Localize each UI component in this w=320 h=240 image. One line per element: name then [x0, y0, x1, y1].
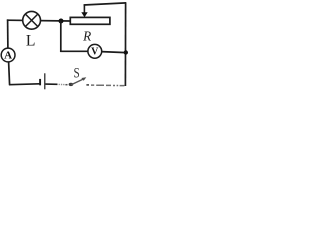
wire left rail lower	[9, 62, 10, 86]
wire left rail upper	[7, 19, 9, 48]
switch S lever	[71, 77, 86, 85]
wire dotted segment before switch	[59, 83, 65, 85]
lamp L	[23, 11, 41, 29]
svg-text:L: L	[26, 33, 36, 50]
svg-text:S: S	[73, 64, 79, 81]
svg-text:R: R	[82, 29, 91, 44]
switch S pivot	[69, 83, 74, 86]
rheostat wiper arrow	[81, 4, 87, 17]
wire from battery to switch (solid part)	[45, 83, 57, 85]
voltmeter V	[88, 44, 102, 58]
rheostat R body	[70, 17, 110, 24]
wire contact dash right of lever	[86, 84, 89, 86]
svg-text:V: V	[91, 46, 99, 57]
wire right rail	[124, 2, 126, 86]
ammeter A	[1, 48, 15, 62]
node junction dot left of R	[59, 19, 64, 24]
wire top-right from wiper to right rail	[84, 3, 126, 5]
node junction dot on right rail	[124, 50, 128, 54]
battery positive plate (long)	[44, 73, 46, 89]
battery negative plate (short)	[39, 79, 41, 85]
wire vertical from junction down to voltmeter branch	[60, 21, 62, 53]
wire bottom-left horizontal	[9, 83, 40, 86]
wire voltmeter to right rail	[101, 52, 126, 53]
wire horizontal to voltmeter	[60, 50, 88, 52]
svg-text:A: A	[4, 50, 12, 62]
wire top-left horizontal	[7, 19, 70, 22]
wire dashed segment right of switch	[91, 84, 124, 87]
